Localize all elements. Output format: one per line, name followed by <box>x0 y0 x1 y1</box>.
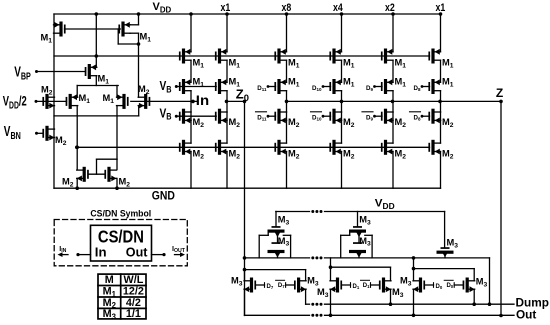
svg-text:x1: x1 <box>436 2 446 14</box>
svg-text:D1​: D1​ <box>363 283 370 289</box>
svg-text:x4: x4 <box>333 2 343 14</box>
svg-text:D1​: D1​ <box>353 284 360 290</box>
svg-text:x2: x2 <box>385 2 395 14</box>
svg-text:D0​: D0​ <box>436 284 443 290</box>
svg-text:Z: Z <box>496 86 503 100</box>
svg-text:Out: Out <box>516 308 536 322</box>
svg-text:x1: x1 <box>221 2 231 14</box>
svg-text:12/2: 12/2 <box>123 286 144 298</box>
svg-text:In: In <box>196 93 209 108</box>
svg-text:D7​: D7​ <box>267 284 274 290</box>
svg-text:4/2: 4/2 <box>126 297 141 309</box>
svg-text:GND: GND <box>152 190 175 203</box>
svg-text:M: M <box>105 274 114 286</box>
svg-text:x8: x8 <box>282 2 292 14</box>
svg-text:D0​: D0​ <box>446 283 453 289</box>
svg-text:W/L: W/L <box>124 274 144 286</box>
svg-text:In: In <box>95 245 107 260</box>
svg-text:D7​: D7​ <box>278 283 285 289</box>
svg-text:Out: Out <box>126 244 148 259</box>
svg-text:1/1: 1/1 <box>126 308 141 320</box>
svg-text:CS/DN Symbol: CS/DN Symbol <box>90 208 151 218</box>
